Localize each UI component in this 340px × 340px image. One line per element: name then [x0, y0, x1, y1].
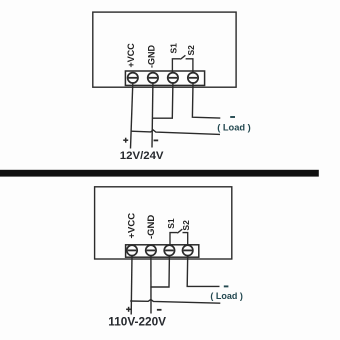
- svg-text:12V/24V: 12V/24V: [120, 150, 164, 162]
- wire +VCC down: [131, 83, 133, 149]
- svg-text:( Load ): ( Load ): [210, 291, 243, 301]
- terminal -GND (screw, U2): [146, 245, 156, 255]
- controller box U1 (12V/24V model): [93, 12, 236, 87]
- node + power positive: [123, 138, 128, 143]
- relay switch K2 between S1 and S2: [170, 229, 188, 245]
- wire load return from +VCC with hop over GND: [131, 130, 220, 134]
- controller box U2 (110V-220V model): [95, 187, 232, 259]
- svg-text:-GND: -GND: [146, 215, 157, 239]
- label +VCC: [126, 43, 136, 68]
- label S1 (U2): [166, 218, 176, 229]
- terminal S1 (screw, U2): [164, 245, 174, 255]
- label S2: [186, 45, 196, 56]
- svg-text:110V-220V: 110V-220V: [108, 314, 166, 328]
- label -GND: [147, 45, 157, 68]
- svg-text:S2: S2: [186, 45, 196, 56]
- wire -GND down: [151, 83, 154, 148]
- terminal S2 (screw): [188, 73, 198, 83]
- terminal strip TB2: [126, 245, 199, 257]
- label (Load) bottom: [210, 291, 243, 301]
- terminal -GND (screw): [148, 73, 158, 83]
- wire load return from +VCC with hop over GND (U2): [130, 300, 220, 304]
- node + power positive (U2): [126, 307, 131, 312]
- label S1: [169, 43, 179, 54]
- label (Load) top: [217, 123, 251, 133]
- terminal strip TB1: [125, 71, 204, 85]
- wire S2 to load (U2): [187, 255, 219, 286]
- terminal S1 (screw): [168, 73, 178, 83]
- terminal +VCC (screw): [128, 73, 138, 83]
- svg-text:( Load ): ( Load ): [217, 123, 251, 133]
- separator bar: [0, 170, 319, 177]
- terminal +VCC (screw, U2): [127, 245, 137, 255]
- svg-text:S1: S1: [169, 43, 179, 54]
- relay switch K1 between S1 and S2: [172, 55, 193, 72]
- node - load polarity: [230, 116, 235, 118]
- node - load polarity (U2): [224, 285, 229, 287]
- svg-text:-GND: -GND: [147, 45, 157, 68]
- wire S1 to GND (U2): [150, 255, 169, 287]
- label 12V/24V: [120, 150, 164, 162]
- label S2 (U2): [181, 220, 191, 231]
- wire -GND down (U2): [150, 255, 152, 313]
- label -GND (U2): [146, 215, 157, 239]
- svg-text:+VCC: +VCC: [127, 213, 138, 239]
- wire S1 to GND: [152, 83, 173, 118]
- wire S2 to load: [192, 83, 220, 118]
- label +VCC (U2): [127, 213, 138, 239]
- node - power negative: [154, 139, 159, 141]
- label 110V-220V: [108, 314, 166, 328]
- svg-text:+VCC: +VCC: [126, 43, 136, 68]
- terminal S2 (screw, U2): [183, 245, 193, 255]
- node - power negative (U2): [157, 309, 162, 311]
- svg-text:S2: S2: [181, 220, 191, 231]
- wire +VCC down (U2): [130, 255, 133, 314]
- svg-text:S1: S1: [166, 218, 176, 229]
